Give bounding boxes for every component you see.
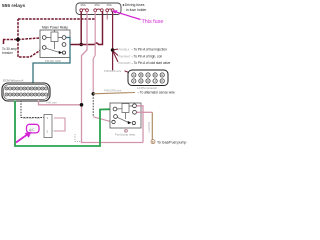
- wire branch 3: [113, 52, 118, 63]
- relay U1 pin 30: [62, 36, 66, 40]
- node injector feed junction: [111, 48, 115, 52]
- relay K2 pin mid-left: [114, 115, 118, 119]
- svg-text:breaker: breaker: [2, 51, 14, 55]
- svg-text:BLK/WHT wire: BLK/WHT wire: [23, 116, 41, 120]
- svg-text:TAN/WHT: TAN/WHT: [147, 122, 150, 133]
- svg-text:B: B: [140, 73, 142, 77]
- svg-text:Main Power Relay: Main Power Relay: [42, 26, 68, 30]
- annotation magenta A/C highlight: [27, 124, 40, 133]
- svg-text:◄Driving fuses: ◄Driving fuses: [122, 3, 145, 7]
- svg-text:25A: 25A: [81, 3, 86, 7]
- wire W1e loop branch to relay common pin: [18, 40, 43, 58]
- relay K2 pin bottom-left: [112, 120, 115, 123]
- svg-text:25A: 25A: [107, 3, 112, 7]
- svg-text:PNK/ORN wire: PNK/ORN wire: [104, 89, 122, 93]
- relay K2 coil: [122, 104, 129, 113]
- wire black dashed BLK/WHT from ECM to A/C box: [21, 101, 44, 118]
- relay K2 fuel pump relay box: [110, 103, 141, 137]
- relay K2 bottom pin mark: [125, 129, 128, 132]
- svg-text:→To Pin A of high, coil: →To Pin A of high, coil: [131, 54, 163, 58]
- node pink junction dot: [80, 103, 84, 107]
- annotation magenta arrow: [16, 134, 28, 143]
- svg-text:A/C: A/C: [29, 128, 35, 132]
- svg-text:G: G: [140, 79, 142, 83]
- svg-text:→To Pin A of cold start valve: →To Pin A of cold start valve: [131, 61, 171, 65]
- annotation this fuse (magenta): [112, 10, 164, 25]
- wire tan to alternator sense: [93, 93, 135, 94]
- wire relay output to fuse2 (with hop): [66, 12, 103, 45]
- relay U1 switch arm: [46, 48, 59, 52]
- wire branch 2: [113, 51, 118, 56]
- svg-text:PNK/DRN wire: PNK/DRN wire: [104, 69, 122, 73]
- node circled B to gas fuel pump: [151, 140, 155, 144]
- pins row F-K: [132, 79, 165, 83]
- svg-text:K: K: [161, 79, 163, 83]
- wire green from ECM to fuel pump relay: [15, 101, 113, 147]
- svg-text:PNK wire: PNK wire: [46, 101, 57, 105]
- wire W1d branch to relay coil pin: [18, 38, 43, 40]
- svg-text:12 PIN connector: 12 PIN connector: [137, 86, 157, 90]
- wire W1c top bus to fuse holder: [18, 18, 95, 20]
- wire W1b vertical riser: [17, 19, 19, 40]
- wire branch 1: [113, 49, 118, 50]
- node junction dot fuse1/relay feed: [80, 43, 83, 46]
- pins row 1: [5, 87, 48, 90]
- wire pink mid-right then tan to fuel pump: [137, 111, 153, 113]
- node alternator junction: [92, 92, 95, 95]
- svg-text:This fuse: This fuse: [142, 19, 164, 25]
- svg-text:25A: 25A: [95, 3, 100, 7]
- wire fuse3 stub: [106, 12, 108, 20]
- fuse F3 25A: [106, 9, 114, 12]
- svg-text:PNK/BLK: PNK/BLK: [119, 47, 130, 51]
- wire pink from ECM to junction: [39, 101, 82, 105]
- wire A/C bracket: [54, 118, 65, 131]
- svg-text:555 relays: 555 relays: [2, 3, 26, 9]
- relay U1 pin 86: [42, 36, 46, 40]
- connector J1 ECM W/conn A: [2, 79, 50, 102]
- relay U1 pin 85: [42, 46, 46, 50]
- relay U1 Main Power Relay box: [40, 26, 70, 58]
- A/C switch box: [44, 115, 52, 138]
- fuse F2 25A: [94, 9, 103, 12]
- connector J2 12 pin GM connector: [128, 70, 168, 90]
- svg-text:D: D: [154, 73, 156, 77]
- svg-text:H: H: [147, 79, 149, 83]
- wire fuse1 right leg (pink) to junction and fuel pump feed: [82, 12, 144, 143]
- svg-text:PPL/DK GRN: PPL/DK GRN: [45, 59, 61, 63]
- relay U1 coil: [51, 32, 58, 42]
- pins row 2: [5, 93, 48, 96]
- svg-text:PNK/GRN: PNK/GRN: [119, 61, 131, 65]
- wire pink from relay top-right down to bottom bus: [137, 106, 144, 143]
- fuse F1 25A: [80, 9, 89, 12]
- wire grey dashed stub near bottom: [75, 134, 81, 142]
- svg-text:PNK/WHT: PNK/WHT: [119, 54, 131, 58]
- fuse holder box: [76, 3, 121, 15]
- wire black dashed below alternator junction: [92, 95, 94, 117]
- relay K2 pin mid-right: [133, 110, 137, 114]
- wire W1a to 30 amp breaker: [3, 40, 18, 45]
- svg-text:To Gas/Fuel pump: To Gas/Fuel pump: [157, 140, 186, 144]
- wire fuse1 left leg down to tee: [80, 12, 82, 45]
- node junction dot at breaker tee: [16, 38, 20, 42]
- svg-text:in fuse holder: in fuse holder: [126, 8, 147, 12]
- wire fuse2 left leg (pale pink) down: [93, 12, 95, 94]
- relay K2 pin top-left: [113, 107, 117, 111]
- svg-text:→To Pin A of fuel injection: →To Pin A of fuel injection: [131, 47, 168, 51]
- relay U1 pin 87: [62, 43, 66, 47]
- pins row A-E: [132, 73, 165, 77]
- relay K2 switch arm: [117, 117, 128, 122]
- svg-text:ECM W/conn A: ECM W/conn A: [3, 79, 23, 83]
- svg-text:A: A: [133, 73, 135, 77]
- svg-text:B: B: [152, 140, 154, 144]
- wire fuse3 right leg down to injector node: [112, 12, 114, 71]
- svg-text:Fuel pump relay: Fuel pump relay: [115, 133, 136, 137]
- svg-text:C: C: [147, 73, 149, 77]
- relay K2 pin top-right: [133, 104, 137, 108]
- wire teal PPL/DK GRN from relay to ECM: [33, 38, 70, 89]
- svg-text:→To alternator sense wire: →To alternator sense wire: [137, 90, 175, 94]
- svg-text:E: E: [161, 73, 163, 77]
